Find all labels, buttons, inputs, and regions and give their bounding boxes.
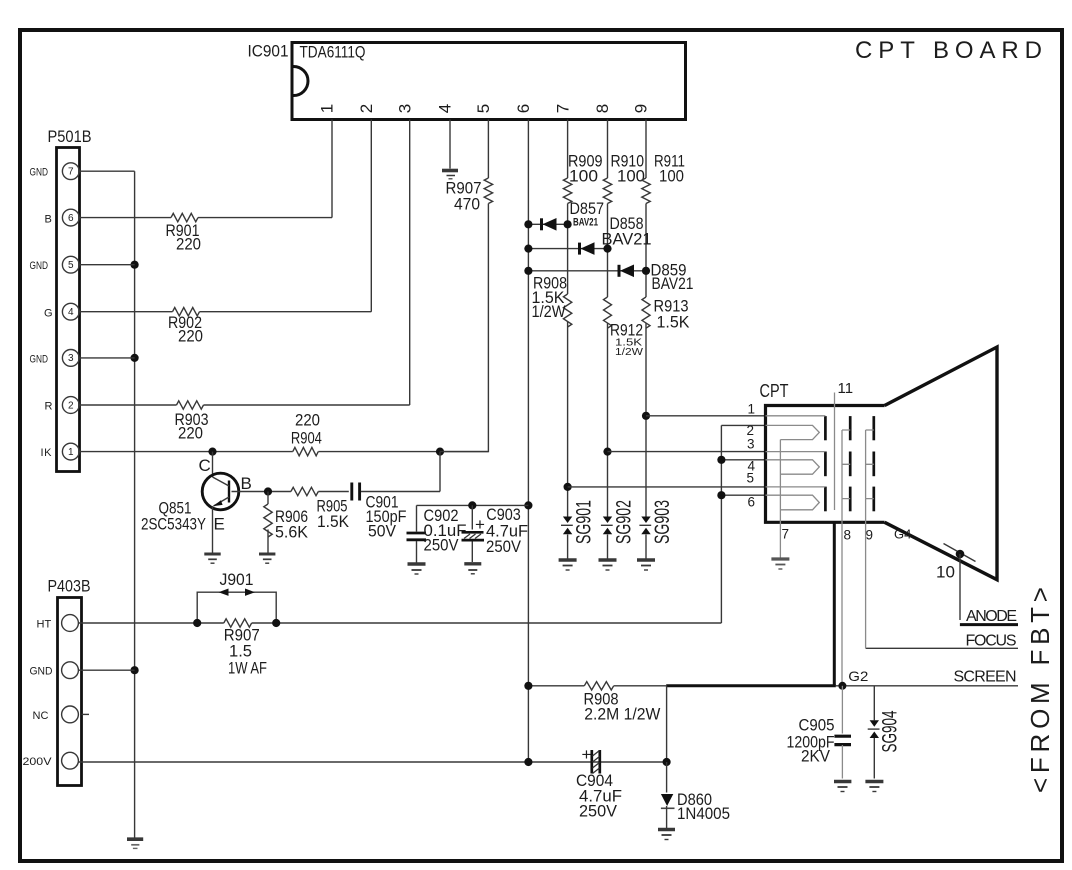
svg-text:B: B <box>241 474 252 493</box>
wire IC pin7 vertical <box>567 120 569 559</box>
wire 200V row <box>78 761 666 763</box>
svg-text:IC901: IC901 <box>248 42 289 61</box>
wire G row <box>79 311 371 313</box>
ground Q851 emitter <box>204 554 220 563</box>
svg-text:1/2W: 1/2W <box>532 302 566 321</box>
svg-text:6: 6 <box>748 495 756 510</box>
svg-text:100: 100 <box>617 167 645 186</box>
wire B row <box>79 217 332 219</box>
svg-text:BAV21: BAV21 <box>602 230 652 249</box>
capacitor C902 <box>407 505 467 562</box>
junction screen pin6 <box>524 682 532 690</box>
resistor R907 1.5 <box>224 619 267 678</box>
resistor R908 2.2M <box>584 682 661 724</box>
svg-text:BAV21: BAV21 <box>652 274 694 293</box>
wire HT row <box>78 622 721 624</box>
ground SG902 <box>599 560 617 570</box>
ground gnd bus <box>127 839 143 848</box>
ground C905 <box>834 782 851 792</box>
svg-text:IK: IK <box>41 447 53 459</box>
junction row6 <box>717 491 725 499</box>
P403B pin HT <box>37 615 79 632</box>
svg-text:4: 4 <box>436 104 455 113</box>
wire base row <box>232 491 349 493</box>
svg-text:BAV21: BAV21 <box>573 217 598 229</box>
svg-text:E: E <box>214 515 225 534</box>
svg-text:7: 7 <box>68 167 74 178</box>
diode D857 <box>524 199 604 231</box>
P501B pin 2 <box>45 397 80 414</box>
svg-text:FOCUS: FOCUS <box>966 633 1017 650</box>
wire G2 tie down <box>841 499 843 686</box>
spark gap SG901 <box>561 500 596 544</box>
wire G2 tie <box>842 430 850 499</box>
capacitor C905 <box>787 686 852 779</box>
svg-text:9: 9 <box>632 104 651 113</box>
svg-text:5: 5 <box>747 471 755 486</box>
ground CPT pin7 <box>771 559 789 569</box>
junction row5 pin7 <box>564 483 572 491</box>
wire gnd bus vertical <box>134 171 136 837</box>
wire IC pin5 <box>440 120 488 452</box>
wire IC pin4 <box>449 120 451 169</box>
P403B pin 200V <box>23 752 79 769</box>
ground IC pin4 <box>442 171 458 179</box>
grid G2 dashed electrode <box>849 416 852 511</box>
svg-text:1: 1 <box>748 402 756 417</box>
junction IK C901 node <box>436 448 444 456</box>
wire pin7 to gnd bus <box>79 170 134 172</box>
wire NC stub <box>82 713 90 715</box>
junction row1 pin9 <box>642 412 650 420</box>
svg-text:C: C <box>199 456 211 475</box>
node G2 <box>838 668 868 690</box>
wire screen thick <box>666 684 836 687</box>
svg-text:3: 3 <box>747 437 755 452</box>
svg-text:P501B: P501B <box>48 127 92 146</box>
svg-text:8: 8 <box>593 104 612 113</box>
jumper J901 <box>193 570 280 627</box>
svg-text:5: 5 <box>68 260 74 271</box>
wire row4 stub <box>721 459 765 461</box>
junction C903 <box>468 501 476 509</box>
wire focus vertical <box>865 499 867 649</box>
wire IC pin6 vertical <box>527 120 529 763</box>
svg-text:5.6K: 5.6K <box>275 523 309 542</box>
connector P403B <box>48 577 91 786</box>
svg-text:HT: HT <box>37 619 52 631</box>
svg-text:220: 220 <box>178 424 203 443</box>
svg-text:NC: NC <box>33 710 49 722</box>
resistor R908 1.5K <box>532 274 572 328</box>
wire screen stub thick <box>833 522 836 686</box>
resistor R904 <box>293 447 318 455</box>
wire row6 stub <box>721 494 765 496</box>
svg-text:SCREEN: SCREEN <box>954 669 1017 686</box>
svg-text:6: 6 <box>68 213 74 224</box>
svg-text:8: 8 <box>844 528 852 543</box>
svg-text:CPT BOARD: CPT BOARD <box>855 37 1042 64</box>
junction 200V D860 <box>663 758 671 766</box>
heater arrow 1 <box>766 425 820 439</box>
svg-text:SG901: SG901 <box>573 500 596 544</box>
diode D860 <box>661 762 730 828</box>
svg-text:R: R <box>45 401 53 413</box>
svg-text:GND: GND <box>30 353 49 365</box>
svg-text:G2: G2 <box>848 668 868 684</box>
wire row3 to CPT <box>608 451 766 453</box>
svg-text:3: 3 <box>68 353 74 364</box>
P501B pin 1 <box>41 443 80 460</box>
svg-text:220: 220 <box>176 235 201 254</box>
svg-text:2KV: 2KV <box>801 747 831 766</box>
resistor R909 <box>563 152 602 204</box>
svg-text:1.5K: 1.5K <box>657 313 691 332</box>
cathode bar K2 <box>824 452 827 477</box>
svg-text:2: 2 <box>357 104 376 113</box>
P403B pin NC <box>33 706 79 723</box>
svg-text:9: 9 <box>866 528 874 543</box>
cathode bar K3 <box>824 487 827 512</box>
svg-text:ANODE: ANODE <box>966 608 1017 625</box>
svg-text:GND: GND <box>30 666 53 678</box>
svg-text:TDA6111Q: TDA6111Q <box>300 43 366 62</box>
junction gnd bus pin3 <box>131 354 139 362</box>
wire IK row <box>79 451 488 453</box>
svg-text:P403B: P403B <box>48 577 91 596</box>
svg-text:<FROM FBT>: <FROM FBT> <box>1025 587 1055 793</box>
svg-text:2.2M 1/2W: 2.2M 1/2W <box>584 705 660 724</box>
svg-text:1: 1 <box>318 104 337 113</box>
svg-text:5: 5 <box>474 104 493 113</box>
svg-text:7: 7 <box>553 104 572 113</box>
junction 200V pin6 <box>524 758 532 766</box>
wire IC pin2 <box>370 120 372 312</box>
spark gap SG902 <box>601 500 636 544</box>
wire C902 C903 top <box>417 504 529 506</box>
svg-text:100: 100 <box>659 167 684 186</box>
resistor R901 <box>171 213 198 221</box>
P403B pin GND <box>30 662 79 679</box>
wire screen left <box>528 685 666 687</box>
CPT socket box <box>760 381 885 522</box>
svg-text:11: 11 <box>838 380 854 397</box>
svg-text:B: B <box>45 214 52 226</box>
wire IC pin8 vertical <box>607 120 609 559</box>
resistor R902 <box>173 308 200 316</box>
net label FOCUS <box>866 633 1018 650</box>
wire heater tie vertical <box>720 425 722 623</box>
svg-text:SG904: SG904 <box>879 710 902 752</box>
resistor R905 <box>291 487 350 531</box>
svg-text:GND: GND <box>30 260 49 272</box>
junction gnd bus pin5 <box>131 261 139 269</box>
wire R908 node down <box>666 686 668 762</box>
ground R906 <box>259 554 275 563</box>
grid G4 dashed electrode <box>872 416 875 511</box>
junction IK collector <box>208 448 216 456</box>
resistor R913 <box>642 297 690 332</box>
svg-text:G: G <box>44 308 53 320</box>
resistor R911 <box>642 152 685 204</box>
ground SG904 <box>865 782 883 792</box>
svg-text:2SC5343Y: 2SC5343Y <box>141 515 206 534</box>
ground SG903 <box>637 560 655 570</box>
resistor R910 <box>603 152 645 204</box>
svg-text:J901: J901 <box>220 570 254 589</box>
svg-text:100: 100 <box>569 167 598 186</box>
wire row5 inside <box>766 486 826 488</box>
CRT funnel <box>885 347 997 580</box>
svg-text:200V: 200V <box>23 756 53 768</box>
svg-text:250V: 250V <box>486 537 522 556</box>
ground C903 <box>464 564 481 574</box>
heater arrow 3 <box>766 495 820 510</box>
resistor R906 <box>264 492 309 553</box>
wire pin5 to bus <box>79 264 134 266</box>
svg-text:+: + <box>582 745 592 764</box>
P501B pin 6 <box>45 209 80 226</box>
wire row5 to CPT <box>568 486 766 488</box>
svg-text:470: 470 <box>454 195 480 214</box>
IC U901 box <box>292 43 686 120</box>
ground C902 <box>408 564 426 574</box>
svg-text:2: 2 <box>68 400 74 411</box>
P501B pin 7 <box>30 163 80 180</box>
resistor R903 <box>177 401 204 409</box>
wire IC pin3 <box>409 120 411 406</box>
wire pin3 to bus <box>79 357 134 359</box>
wire GND row <box>78 669 134 671</box>
wire IC pin9 vertical <box>645 120 647 559</box>
wire G4 tie <box>866 430 874 499</box>
heater arrow 2 <box>766 460 820 474</box>
svg-text:250V: 250V <box>424 536 460 555</box>
P501B pin 4 <box>44 303 79 320</box>
junction C901 node pin6 <box>524 501 532 509</box>
junction gnd bus P403B <box>131 666 139 674</box>
wire CPT pin7 vertical <box>779 440 781 558</box>
svg-text:D857: D857 <box>570 199 605 218</box>
resistor R912 <box>604 297 644 358</box>
svg-text:R904: R904 <box>291 429 322 448</box>
svg-text:7: 7 <box>782 527 790 542</box>
spark gap SG904 <box>868 686 902 779</box>
net label ANODE <box>960 608 1018 625</box>
P501B pin 5 <box>30 256 80 273</box>
diode D859 <box>524 261 693 294</box>
diode D858 <box>524 214 651 255</box>
svg-text:1W AF: 1W AF <box>228 659 267 678</box>
svg-text:GND: GND <box>30 167 49 179</box>
svg-text:6: 6 <box>514 104 533 113</box>
svg-text:+: + <box>475 515 485 534</box>
svg-text:SG902: SG902 <box>612 500 635 544</box>
wire row3 inside <box>766 451 826 453</box>
spark gap SG903 <box>639 500 674 544</box>
svg-text:50V: 50V <box>368 522 397 541</box>
svg-text:4: 4 <box>68 307 74 318</box>
wire CPT pin11 line <box>834 393 836 511</box>
ground D860 <box>658 830 675 840</box>
junction base R906 <box>264 487 272 495</box>
node anode pin 10 <box>956 550 965 559</box>
svg-text:1.5K: 1.5K <box>317 512 350 531</box>
svg-text:220: 220 <box>178 327 203 346</box>
wire row1 to CPT <box>646 415 766 417</box>
ground SG901 <box>559 560 577 570</box>
svg-text:SG903: SG903 <box>651 500 674 544</box>
capacitor C903 polarized <box>462 505 529 562</box>
svg-text:1/2W: 1/2W <box>615 346 643 358</box>
anode contact tick <box>944 544 976 562</box>
P501B pin 3 <box>30 350 80 367</box>
wire anode down <box>959 554 961 620</box>
wire R row <box>79 404 410 406</box>
wire row1 inside <box>766 415 826 417</box>
junction row3 pin8 <box>603 448 611 456</box>
junction row4 <box>717 456 725 464</box>
net label SCREEN <box>836 669 1018 686</box>
svg-text:G4: G4 <box>894 527 911 542</box>
svg-text:1N4005: 1N4005 <box>677 804 730 823</box>
wire row2 stub <box>721 424 765 426</box>
resistor R907 470 <box>484 178 492 203</box>
wire IC pin1 <box>331 120 333 218</box>
capacitor C904 polarized <box>576 745 622 821</box>
svg-text:CPT: CPT <box>760 381 789 401</box>
svg-text:1: 1 <box>68 447 74 458</box>
svg-text:250V: 250V <box>579 802 618 821</box>
svg-text:3: 3 <box>395 104 414 113</box>
svg-text:220: 220 <box>295 411 320 430</box>
transistor Q851 <box>141 452 252 553</box>
capacitor C901 <box>352 452 440 541</box>
svg-text:10: 10 <box>936 563 955 582</box>
cathode bar K1 <box>824 416 827 440</box>
connector P501B <box>48 127 92 472</box>
